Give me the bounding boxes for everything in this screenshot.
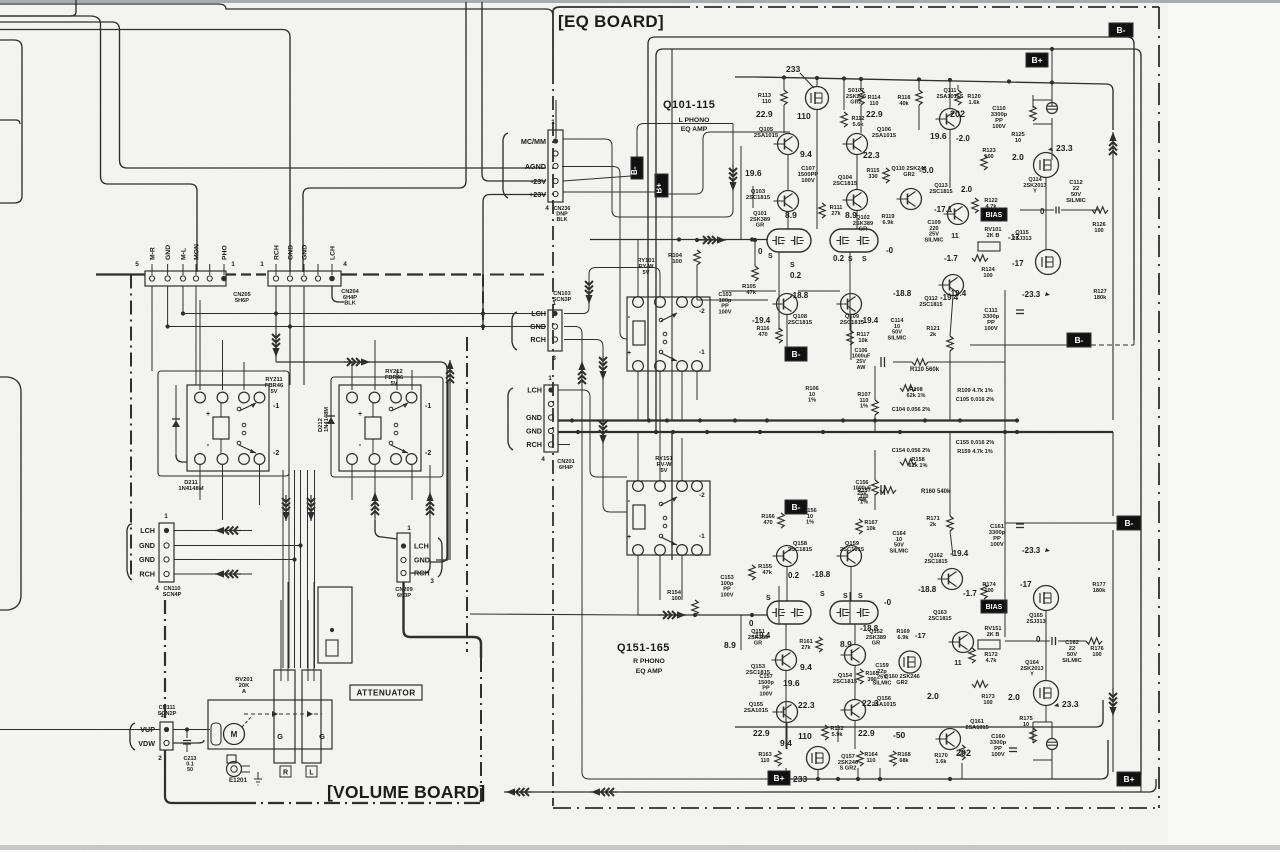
capacitor C161 sym (1016, 523, 1024, 525)
svg-text:-1.7: -1.7 (963, 589, 977, 598)
svg-text:2SC1815: 2SC1815 (788, 320, 813, 326)
wires R amp verticals (785, 671, 787, 749)
wire W-A top (0, 30, 290, 273)
svg-text:2K B: 2K B (987, 233, 1000, 239)
wire B+ node (1051, 49, 1053, 95)
black box B- rail (631, 157, 643, 179)
svg-text:1%: 1% (860, 500, 868, 506)
svg-text:40k: 40k (899, 101, 909, 107)
capacitor ecap R (1047, 739, 1058, 750)
wire dualfet feeds (696, 265, 698, 300)
wire nest rect R mirror (671, 432, 673, 560)
svg-text:5V: 5V (660, 468, 667, 474)
svg-text:SCN3P: SCN3P (553, 297, 572, 303)
svg-text:100V: 100V (759, 691, 772, 697)
arrow CN103 LCH riser (588, 282, 590, 304)
wires relay RY101 pins down (637, 371, 639, 420)
svg-text:S: S (862, 256, 867, 263)
wire bottom rail R amp (756, 778, 1035, 780)
svg-text:G: G (277, 732, 283, 741)
svg-text:-19.4: -19.4 (752, 316, 771, 325)
svg-text:100: 100 (1094, 228, 1103, 234)
svg-text:100V: 100V (990, 542, 1004, 548)
wire +23V feed (483, 195, 546, 327)
black box BIAS R (981, 600, 1007, 613)
svg-text:68k: 68k (899, 758, 909, 764)
black box B+ rail (655, 174, 668, 197)
arrow RY212 leg1 (374, 492, 376, 518)
transistor S0157 FET (807, 747, 830, 770)
svg-text:-18.8: -18.8 (918, 585, 937, 594)
wire input row R (470, 614, 638, 615)
svg-text:GR: GR (754, 641, 762, 647)
svg-text:R PHONO: R PHONO (633, 658, 665, 665)
svg-text:1: 1 (164, 513, 168, 520)
junction dots rails (181, 311, 185, 315)
black box BIAS L (981, 208, 1007, 221)
resistor R111 (819, 203, 825, 218)
transistor Q103 (778, 191, 799, 212)
svg-text:-5.0: -5.0 (919, 165, 934, 175)
wire R125 loop (1033, 95, 1052, 140)
svg-text:50: 50 (187, 767, 193, 773)
svg-text:Y: Y (1033, 189, 1037, 195)
transistor Q164 FET (1034, 586, 1059, 611)
svg-text:202: 202 (950, 109, 965, 119)
wire RY211 pins up (199, 300, 201, 390)
svg-text:-2: -2 (699, 308, 705, 315)
connector CN201 box (544, 385, 558, 452)
wire relay rail lower (168, 326, 546, 328)
svg-text:-: - (207, 440, 210, 449)
preset RV101 (978, 242, 1000, 251)
svg-text:RCH: RCH (530, 335, 546, 344)
svg-text:-17: -17 (1008, 233, 1020, 242)
svg-text:B-: B- (1117, 25, 1126, 35)
svg-text:2k: 2k (930, 522, 937, 528)
label ATTENUATOR (350, 685, 422, 700)
svg-text:[VOLUME BOARD]: [VOLUME BOARD] (327, 782, 485, 802)
resistor R171 (947, 516, 953, 531)
black box B- top (1109, 23, 1133, 37)
svg-text:-19.4: -19.4 (950, 549, 969, 558)
svg-text:1N4148M: 1N4148M (324, 407, 330, 432)
arrow GND drop up (581, 361, 583, 383)
arrow CN110 LCH (215, 530, 241, 532)
motor M201 (211, 723, 221, 745)
svg-text:-18.8: -18.8 (893, 289, 912, 298)
svg-text:1%: 1% (808, 398, 816, 404)
svg-text:VDW: VDW (138, 739, 155, 748)
svg-text:2SA1015: 2SA1015 (754, 133, 779, 139)
arrow CN110 RCH (215, 573, 241, 575)
svg-text:C104 0.056 2%: C104 0.056 2% (892, 407, 931, 413)
connector CN204 pins (273, 276, 278, 281)
wire into CN209 GND (436, 382, 448, 560)
resistor R107 (872, 400, 878, 415)
svg-text:2SJ313: 2SJ313 (1026, 619, 1045, 625)
svg-text:M-L: M-L (181, 248, 188, 260)
svg-text:EQ AMP: EQ AMP (636, 668, 663, 675)
svg-text:-23.3: -23.3 (1022, 290, 1041, 299)
svg-text:SILMIC: SILMIC (888, 335, 907, 341)
junction dots CN110 (298, 543, 302, 547)
wire R110 row (893, 361, 912, 363)
wire left bracket lower (0, 377, 21, 610)
svg-text:LCH: LCH (531, 309, 546, 318)
transistor Q165 FET (1034, 681, 1059, 706)
svg-text:S: S (766, 595, 771, 602)
svg-text:1.6k: 1.6k (936, 759, 948, 765)
transistor Q113 (901, 189, 922, 210)
wire VUP long (0, 729, 160, 731)
svg-text:EQ AMP: EQ AMP (681, 126, 708, 133)
connector CN111 box (160, 722, 173, 750)
arrow input R (658, 614, 686, 616)
wire R loop bottom1 (768, 740, 1108, 779)
transistor Q153 (776, 650, 797, 671)
svg-text:+23V: +23V (529, 190, 546, 199)
wire CN110 LCH row (174, 530, 252, 532)
capacitor C160 sym (1009, 747, 1017, 749)
black box B+ bottom right (1117, 772, 1141, 786)
arrow CN103 RCH drop (602, 356, 604, 380)
wire motor link dash (242, 716, 252, 727)
svg-text:3: 3 (552, 355, 556, 362)
bracket CN110 (127, 524, 132, 580)
svg-text:1.6k: 1.6k (969, 100, 981, 106)
transistor Q161 (940, 729, 961, 750)
wire CN201 LCH into relay RY151 (558, 390, 627, 477)
transistor Q154 (845, 645, 866, 666)
resistor R115 (883, 168, 889, 183)
wire input row L (590, 239, 768, 241)
resistor R155 (749, 565, 755, 580)
svg-text:6H4P: 6H4P (559, 465, 573, 471)
wire right col verticals (1004, 290, 1006, 523)
svg-text:-23V: -23V (531, 177, 546, 186)
svg-text:SILMIC: SILMIC (1062, 658, 1082, 664)
transistor Q105 (778, 134, 799, 155)
label CN204 ref (332, 286, 344, 302)
svg-text:M: M (231, 730, 238, 739)
svg-text:23.3: 23.3 (1056, 143, 1073, 153)
svg-text:BIAS: BIAS (986, 604, 1003, 611)
svg-text:5.6k: 5.6k (853, 122, 865, 128)
wire CN204 GND down (289, 286, 291, 385)
svg-text:10k: 10k (858, 338, 868, 344)
dual FET Q151 (767, 601, 811, 624)
relay RY211 (187, 385, 269, 471)
svg-text:B+: B+ (1031, 55, 1042, 65)
volume board border left solid (165, 750, 240, 803)
svg-text:SILMIC: SILMIC (873, 680, 892, 686)
wire CN110 RCH row (174, 573, 252, 575)
wire nest rect3 upper (735, 77, 1113, 130)
svg-text:10: 10 (1015, 138, 1021, 144)
black box B- R amp (785, 500, 807, 514)
svg-text:22.3: 22.3 (863, 150, 880, 160)
svg-text:1%: 1% (806, 520, 814, 526)
svg-text:R: R (283, 770, 288, 777)
svg-text:2SA1015: 2SA1015 (744, 708, 769, 714)
label R108 (900, 385, 916, 391)
wire top rail L amp (756, 77, 1106, 84)
svg-text:1: 1 (260, 261, 264, 268)
wire x1113 middle (1112, 160, 1114, 420)
wire nest rect2 (656, 49, 1141, 775)
resistor R168 (890, 751, 896, 766)
wire x1113 lower (1112, 432, 1114, 516)
svg-text:2SC1815: 2SC1815 (929, 189, 952, 195)
svg-text:GND: GND (288, 245, 295, 260)
svg-text:RCH: RCH (274, 245, 281, 260)
svg-text:22.9: 22.9 (866, 109, 883, 119)
resistor R160 540k (880, 487, 896, 493)
svg-text:-18.8: -18.8 (812, 570, 831, 579)
svg-text:GND: GND (302, 245, 309, 260)
svg-text:5.9k: 5.9k (832, 732, 844, 738)
transistor Q115 FET (1036, 250, 1061, 275)
svg-text:SILMIC: SILMIC (1066, 198, 1086, 204)
wire R175 loop (1033, 706, 1052, 779)
svg-text:8.9: 8.9 (724, 640, 736, 650)
svg-text:100V: 100V (992, 124, 1006, 130)
pot R boxed label (280, 766, 291, 777)
wire relay2 right drop (430, 372, 447, 562)
arrow input L (698, 239, 726, 241)
svg-text:233: 233 (786, 64, 800, 74)
svg-text:19.6: 19.6 (745, 168, 762, 178)
wire -23V to B- bar (563, 176, 631, 181)
svg-text:S: S (768, 253, 773, 260)
transistor Q163 (953, 632, 974, 653)
transistor Q109 (841, 294, 862, 315)
svg-text:L: L (309, 770, 314, 777)
pot L slider (302, 670, 321, 763)
transistor Q112 (943, 275, 964, 296)
arrow x1113 up (1112, 132, 1114, 160)
svg-text:9.4: 9.4 (800, 662, 812, 672)
wire Q108 link (722, 290, 776, 292)
svg-text:0.2: 0.2 (788, 571, 800, 580)
resistor R173 (972, 681, 988, 687)
svg-text:RCH: RCH (526, 440, 542, 449)
svg-text:-50: -50 (893, 730, 906, 740)
relay RY211 outer loop (158, 371, 289, 476)
wire B+ out (668, 132, 790, 194)
wire W-C vertical (101, 24, 198, 272)
wire CN110 GND rows (174, 545, 301, 547)
input selector box (318, 587, 352, 663)
svg-text:8.9: 8.9 (845, 210, 857, 220)
svg-text:110: 110 (866, 758, 875, 764)
resistor R165 (857, 669, 863, 684)
svg-text:3: 3 (430, 578, 434, 585)
svg-text:S: S (843, 593, 848, 600)
wire R nest3 (735, 700, 1103, 727)
wires pots up (280, 600, 282, 670)
svg-text:62k 1%: 62k 1% (909, 463, 928, 469)
wire CN209 tail thick (404, 582, 482, 658)
svg-text:B-: B- (792, 502, 801, 512)
svg-text:2SC1815: 2SC1815 (833, 181, 858, 187)
svg-text:0: 0 (1036, 635, 1041, 644)
svg-text:-2: -2 (699, 492, 705, 499)
svg-text:LCH: LCH (140, 526, 155, 535)
connector CN236 box (548, 130, 563, 202)
resistor R172 (969, 648, 975, 663)
svg-text:2SC1815: 2SC1815 (928, 616, 951, 622)
svg-text:4.7k: 4.7k (986, 658, 998, 664)
svg-text:-19.4: -19.4 (948, 289, 967, 298)
svg-text:Q101-115: Q101-115 (663, 99, 715, 111)
svg-text:4: 4 (343, 261, 347, 268)
connector CN110 pins (164, 528, 169, 533)
resistor R121 (947, 336, 953, 351)
svg-text:AW: AW (857, 365, 867, 371)
svg-text:M-R: M-R (150, 247, 157, 260)
svg-text:110: 110 (797, 111, 811, 121)
svg-text:-23.3: -23.3 (1022, 546, 1041, 555)
black box B+ top (1026, 53, 1048, 67)
svg-text:0: 0 (749, 619, 754, 628)
transistor Q159 (841, 546, 862, 567)
svg-text:MON: MON (194, 244, 201, 260)
svg-text:11: 11 (954, 660, 962, 667)
svg-text:SCN2P: SCN2P (158, 711, 177, 717)
transistor Q108 (777, 294, 798, 315)
svg-text:R109 4.7k 1%: R109 4.7k 1% (957, 388, 992, 394)
resistor R116 470 (776, 328, 782, 343)
wire CN201 RCH into EQ (558, 444, 570, 446)
svg-text:-2: -2 (273, 450, 279, 457)
svg-text:110: 110 (760, 758, 769, 764)
wire AGND long (120, 30, 547, 168)
wire +23V to B+ bar (563, 191, 655, 193)
wire VUP to motor (173, 729, 210, 731)
svg-text:1%: 1% (860, 404, 868, 410)
svg-text:100V: 100V (984, 326, 998, 332)
svg-text:LCH: LCH (527, 386, 542, 395)
svg-text:B-: B- (630, 166, 639, 175)
svg-text:-: - (628, 496, 631, 505)
wire into CN209 LCH (375, 520, 397, 539)
capacitor C-ecap L (1047, 103, 1058, 114)
svg-text:11: 11 (951, 233, 959, 240)
diode D211 (175, 385, 177, 455)
svg-text:+: + (206, 411, 210, 418)
svg-text:4: 4 (541, 456, 545, 463)
svg-text:100V: 100V (991, 752, 1005, 758)
svg-text:2SC1815: 2SC1815 (833, 679, 858, 685)
svg-text:R110 560k: R110 560k (910, 367, 940, 373)
svg-text:GND: GND (530, 322, 546, 331)
svg-text:180k: 180k (1093, 588, 1106, 594)
svg-text:GR: GR (859, 227, 867, 233)
svg-text:2SA1015: 2SA1015 (965, 725, 988, 731)
wires relay RY151 pins up (637, 432, 639, 481)
wire top-entry stub (0, 0, 76, 16)
resistor R110 560k (912, 359, 928, 365)
svg-text:+: + (358, 411, 362, 418)
svg-text:2.0: 2.0 (927, 691, 939, 701)
svg-text:2.0: 2.0 (1012, 152, 1024, 162)
svg-text:2.0: 2.0 (1008, 692, 1020, 702)
dual FET Q101 (767, 229, 811, 252)
svg-text:-17.1: -17.1 (934, 205, 953, 214)
svg-text:Y: Y (1030, 672, 1034, 678)
svg-text:5: 5 (135, 261, 139, 268)
arrow bundle down right (310, 495, 312, 521)
black box B- right (1067, 333, 1091, 347)
wire C162 row (1005, 640, 1050, 642)
connector CN110 box (159, 523, 174, 582)
resistor R163 (775, 751, 781, 766)
wires L amp verticals (783, 79, 785, 90)
wire top W-B entry (0, 16, 101, 24)
wire L mid links (786, 315, 788, 347)
svg-text:RCH: RCH (139, 570, 155, 579)
transistor Q156 (845, 700, 866, 721)
diode D212 (330, 390, 332, 450)
svg-text:1: 1 (548, 375, 552, 382)
svg-text:4: 4 (545, 205, 549, 212)
svg-text:GR2: GR2 (896, 680, 908, 686)
bus junction dots (647, 418, 651, 422)
svg-text:1: 1 (231, 261, 235, 268)
volume board border top (96, 273, 145, 275)
svg-text:22.3: 22.3 (798, 700, 815, 710)
svg-text:9.4: 9.4 (800, 149, 812, 159)
svg-text:2K B: 2K B (987, 632, 1000, 638)
svg-text:100: 100 (983, 273, 992, 279)
svg-text:LCH: LCH (414, 542, 429, 551)
connector CN103 pins (552, 311, 557, 316)
svg-text:22.9: 22.9 (753, 728, 770, 738)
svg-text:100: 100 (671, 596, 681, 602)
svg-text:110: 110 (798, 731, 812, 741)
svg-text:2k: 2k (930, 332, 937, 338)
arrow B+ left out (591, 791, 617, 793)
black box B- L amp (785, 347, 807, 361)
volume board border right (482, 275, 484, 331)
wire VDW to motor (173, 740, 204, 743)
svg-text:C154 0.056 2%: C154 0.056 2% (892, 448, 931, 454)
svg-text:22.9: 22.9 (858, 728, 875, 738)
wire RCH to relay2 (276, 362, 447, 372)
motor E1201 (227, 755, 236, 763)
wire top W1 (0, 4, 553, 16)
svg-text:2SC1815: 2SC1815 (788, 547, 813, 553)
wire nest rect1 (648, 37, 1134, 420)
wire RY211 pins down (199, 465, 201, 500)
svg-text:-0: -0 (886, 246, 894, 255)
svg-text:S: S (820, 591, 825, 598)
capacitor C213 (185, 727, 189, 731)
svg-text:470: 470 (758, 332, 767, 338)
transistor Q104 (847, 190, 868, 211)
svg-text:-2.0: -2.0 (956, 134, 970, 143)
wire R105 top (754, 240, 756, 266)
bus GND1 thick (558, 419, 1017, 421)
wire bundle verticals (282, 470, 284, 668)
svg-text:-1.7: -1.7 (944, 254, 958, 263)
svg-text:100: 100 (984, 588, 993, 594)
svg-text:330: 330 (868, 174, 877, 180)
svg-text:C155 0.016 2%: C155 0.016 2% (956, 440, 995, 446)
resistor R167 (856, 519, 862, 534)
